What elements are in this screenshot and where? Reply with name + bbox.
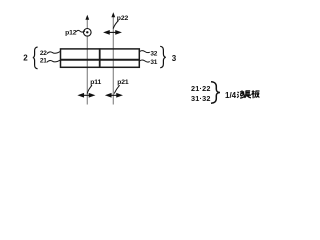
waveplate: middle layer boundary line [60,59,140,61]
svg-text:2: 2 [23,54,28,63]
leader tilde 31 [140,60,150,62]
svg-text:31: 31 [150,59,157,66]
leader tilde 21 [47,60,60,62]
svg-text:31·32: 31·32 [191,94,211,103]
leader curve p11 [87,85,92,93]
polarization symbol: double arrow p21 [107,94,122,97]
wire: vertical light-path line p12/p11 [86,17,88,105]
kanji 波 (wave) [237,90,245,98]
polarization symbol: double arrow p22 [105,31,121,34]
arrow up on p12 line [85,15,89,20]
svg-text:p12: p12 [65,30,77,37]
leader tilde 32 [140,51,150,53]
kanji 板 (board) [252,90,260,98]
brace right } [160,46,166,68]
wire: vertical light-path line p22/p21 [112,15,114,105]
svg-text:1/4: 1/4 [225,91,237,100]
svg-text:p21: p21 [117,79,129,86]
legend brace } [211,82,220,103]
svg-text:3: 3 [172,54,177,63]
leader curve p21 [114,85,119,93]
leader tilde p12 [76,30,85,32]
polarization symbol: circle-dot p12 [84,29,92,37]
waveplate body: outer rectangle [61,49,140,67]
kanji 長 (long) [245,91,252,98]
leader curve p22 [113,20,118,28]
svg-text:22: 22 [40,50,47,57]
polarization symbol: double arrow p11 [79,94,94,97]
svg-text:21: 21 [40,58,47,65]
brace left { [33,47,38,69]
arrow up on p22 line [111,12,115,17]
svg-text:32: 32 [150,50,157,57]
waveplate: center vertical divider [99,48,101,67]
leader tilde 22 [47,52,60,54]
svg-text:21·22: 21·22 [191,84,211,93]
